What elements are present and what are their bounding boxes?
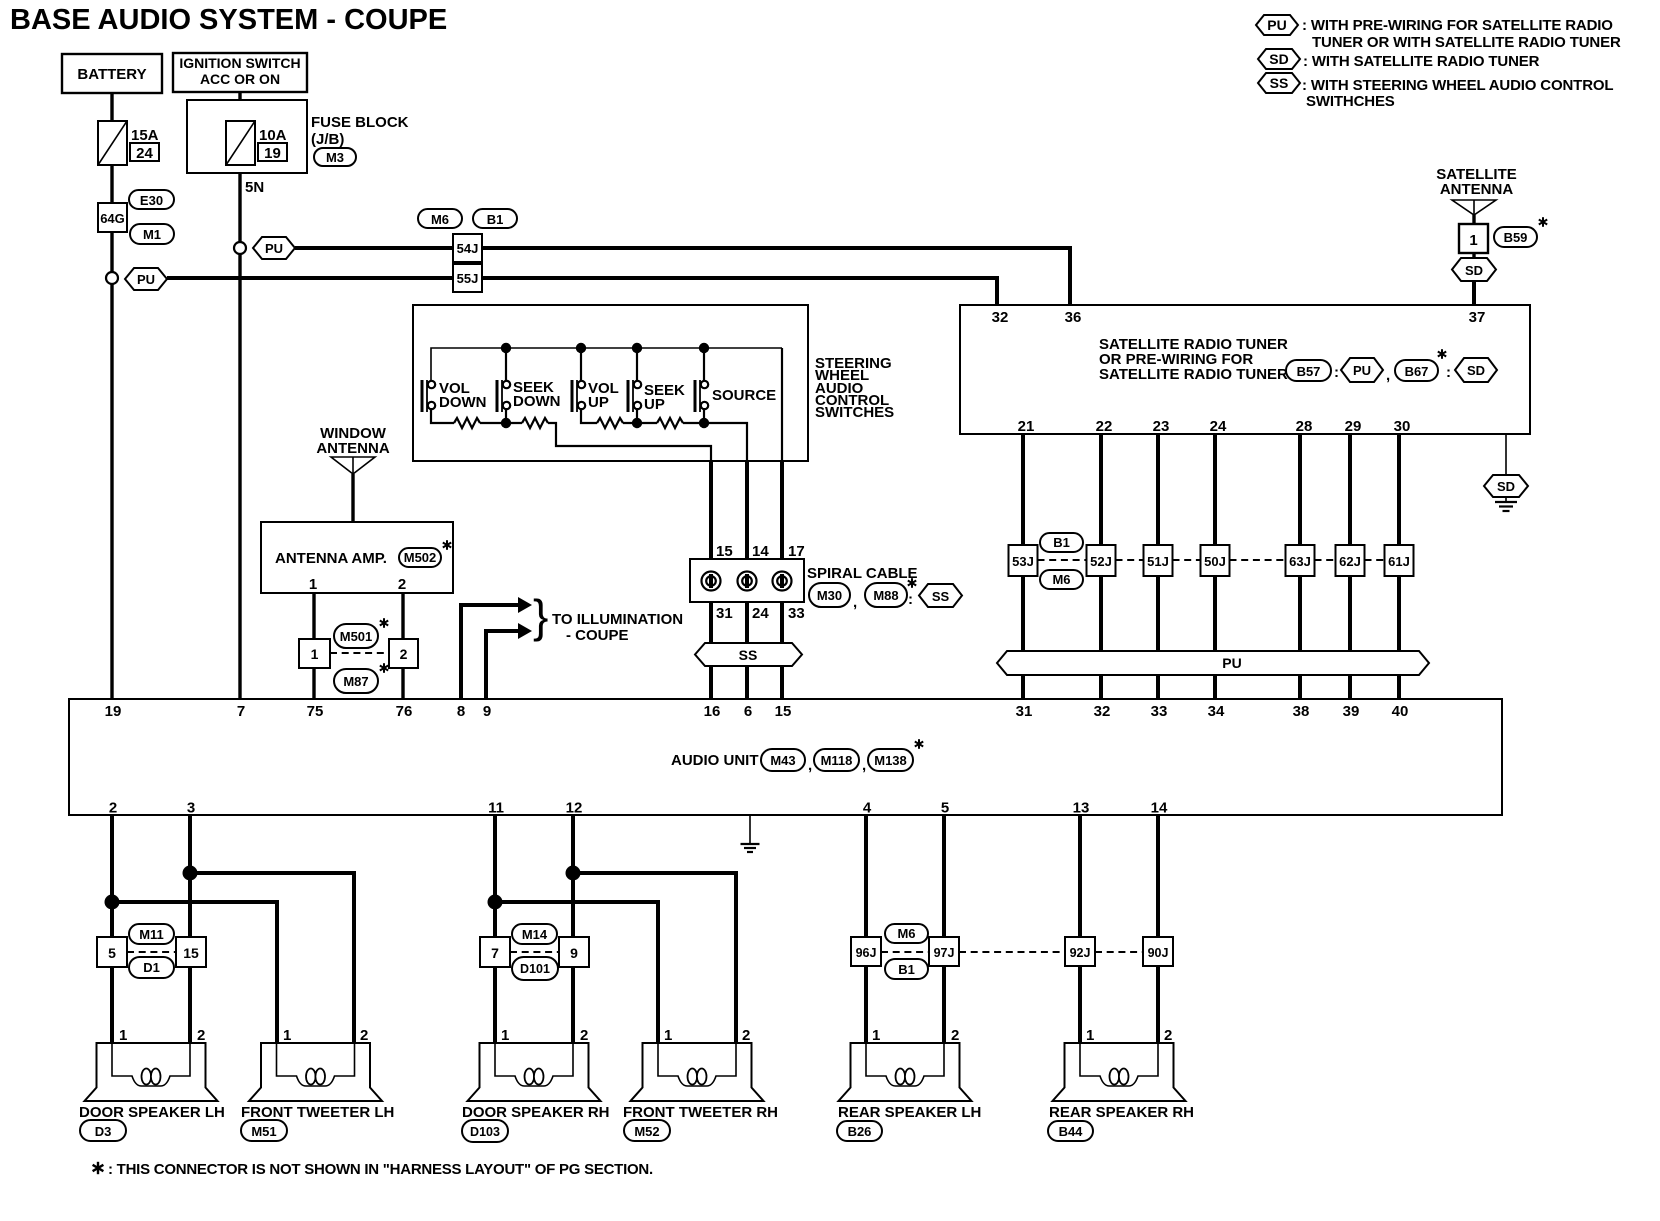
svg-text:97J: 97J — [934, 946, 955, 960]
wire audio 14 to rear RH 2 — [1156, 815, 1160, 1043]
ignition switch — [173, 53, 307, 92]
connector M11 — [129, 924, 174, 944]
svg-text:SATELLITE RADIO TUNER: SATELLITE RADIO TUNER — [1099, 366, 1288, 383]
junction audio12 — [566, 866, 581, 881]
svg-text:30: 30 — [1394, 418, 1411, 435]
wire branch to tweeter LH 1 — [112, 902, 277, 1043]
svg-text:SD: SD — [1465, 263, 1483, 278]
connector B67 — [1395, 360, 1438, 381]
svg-text:90J: 90J — [1148, 946, 1169, 960]
battery B+ — [62, 54, 162, 93]
net tag SD ground — [1484, 475, 1528, 497]
svg-text:1: 1 — [311, 646, 319, 662]
svg-text:D101: D101 — [520, 962, 550, 976]
connector B1 rear — [885, 959, 928, 979]
svg-text:7: 7 — [237, 703, 245, 720]
wire seek-up bottom — [636, 408, 638, 423]
wire audio 2 to door speaker LH 1 — [110, 815, 114, 1043]
svg-text:39: 39 — [1343, 703, 1360, 720]
net banner PU — [997, 651, 1429, 675]
wire box1 to SD — [1472, 253, 1475, 260]
door speaker LH — [85, 1043, 218, 1101]
connector M51 — [241, 1120, 287, 1141]
junction bus vol-up — [576, 343, 586, 353]
wire audio 13 to rear RH 1 — [1078, 815, 1082, 1043]
front tweeter LH — [249, 1043, 382, 1101]
wire SD to tuner pin37 — [1472, 281, 1476, 305]
svg-text:14: 14 — [1151, 800, 1168, 817]
svg-text:ACC OR ON: ACC OR ON — [200, 71, 280, 87]
svg-text:FRONT TWEETER LH: FRONT TWEETER LH — [241, 1104, 394, 1121]
junction battery/PU — [106, 272, 118, 284]
fuse 15A — [98, 121, 127, 165]
svg-text:2: 2 — [580, 1027, 588, 1044]
svg-text:DOWN: DOWN — [439, 394, 487, 411]
splice 62J — [1336, 545, 1365, 576]
connector box 5 — [97, 937, 127, 967]
svg-text:24: 24 — [1210, 418, 1227, 435]
door speaker RH — [468, 1043, 601, 1101]
asterisk B59 — [1539, 217, 1547, 227]
splice 53J — [1009, 545, 1038, 576]
connector M502 — [399, 548, 441, 567]
net tag SS right — [919, 584, 962, 607]
svg-text:B59: B59 — [1504, 230, 1528, 245]
connector box 1 antenna — [1459, 224, 1488, 253]
svg-text:75: 75 — [307, 703, 324, 720]
wire audio 4 to rear LH 1 — [864, 815, 868, 1043]
svg-text:1: 1 — [119, 1027, 127, 1044]
wire tuner 23 to audio 33 — [1156, 434, 1160, 699]
wire R3 to seek-up — [623, 422, 657, 424]
junction bus seek-down — [501, 343, 511, 353]
connector box 9 — [559, 937, 589, 967]
wire amp pin1 to audio 75 — [312, 593, 315, 699]
svg-text:7: 7 — [491, 945, 499, 961]
resistor R2 — [522, 418, 548, 428]
svg-text:M52: M52 — [634, 1124, 659, 1139]
svg-text:M118: M118 — [821, 753, 853, 768]
audio unit box — [69, 699, 1502, 815]
wire tuner 28 to audio 38 — [1298, 434, 1302, 699]
svg-text:M6: M6 — [1052, 572, 1070, 587]
svg-text:PU: PU — [1267, 17, 1286, 33]
arrowhead 9 — [518, 623, 532, 639]
svg-text:52J: 52J — [1090, 554, 1112, 569]
svg-text:,: , — [1386, 367, 1390, 384]
satellite antenna symbol — [1452, 200, 1496, 215]
svg-text:22: 22 — [1096, 418, 1113, 435]
svg-text:15: 15 — [775, 703, 792, 720]
svg-text:19: 19 — [264, 145, 281, 162]
svg-text:1: 1 — [1086, 1027, 1094, 1044]
wire seek-down bottom — [505, 408, 507, 423]
wire spiral pin 17 column — [780, 461, 784, 699]
svg-text:61J: 61J — [1388, 554, 1410, 569]
wire audio 11 to door speaker RH 1 — [493, 815, 497, 1043]
spiral coil pin17 — [773, 572, 792, 591]
splice 52J — [1087, 545, 1116, 576]
satellite radio tuner box — [960, 305, 1530, 434]
svg-text:38: 38 — [1293, 703, 1310, 720]
svg-text:16: 16 — [704, 703, 721, 720]
net banner SS — [695, 643, 802, 666]
net tag SD antenna — [1452, 258, 1496, 281]
wire switch top bus — [431, 348, 782, 381]
wire battery feed — [110, 93, 113, 699]
wire branch to tweeter LH 2 — [190, 873, 354, 1043]
svg-text:19: 19 — [105, 703, 122, 720]
svg-text:E30: E30 — [140, 193, 163, 208]
svg-text:3: 3 — [187, 800, 195, 817]
svg-text:10A: 10A — [259, 127, 287, 144]
svg-text:31: 31 — [716, 605, 733, 622]
svg-text:M501: M501 — [340, 629, 373, 644]
svg-text:SD: SD — [1497, 479, 1515, 494]
svg-text:UP: UP — [644, 396, 665, 413]
net tag PU upper — [253, 237, 295, 259]
svg-text:5: 5 — [941, 800, 949, 817]
wire tuner 29 to audio 39 — [1348, 434, 1352, 699]
svg-text:SWITCHES: SWITCHES — [815, 404, 894, 421]
svg-text:63J: 63J — [1289, 554, 1311, 569]
connector B44 — [1048, 1121, 1093, 1141]
wire to illumination 9 — [486, 631, 518, 699]
connector M118 — [814, 749, 859, 771]
splice 55J — [453, 264, 482, 292]
net tag SD tuner — [1455, 358, 1497, 382]
svg-text:21: 21 — [1018, 418, 1035, 435]
legend PU symbol — [1256, 15, 1298, 35]
svg-text:32: 32 — [992, 309, 1009, 326]
wire tuner 22 to audio 32 — [1099, 434, 1103, 699]
svg-text:AUDIO UNIT: AUDIO UNIT — [671, 752, 759, 769]
svg-text:2: 2 — [109, 800, 117, 817]
steering wheel audio control switches box — [413, 305, 808, 461]
front tweeter RH — [631, 1043, 764, 1101]
svg-text:34: 34 — [1208, 703, 1225, 720]
svg-text:M11: M11 — [139, 927, 164, 942]
wire drop seek-down — [505, 348, 507, 381]
svg-text:1: 1 — [283, 1027, 291, 1044]
connector 64G — [98, 203, 127, 232]
svg-text:28: 28 — [1296, 418, 1313, 435]
connector B59 — [1494, 227, 1537, 247]
wire source bottom — [703, 408, 705, 423]
svg-text:64G: 64G — [100, 211, 125, 226]
rear speaker RH — [1053, 1043, 1186, 1101]
wire tuner 24 to audio 34 — [1213, 434, 1217, 699]
splice 97J — [929, 937, 959, 966]
svg-text:- COUPE: - COUPE — [566, 627, 629, 644]
asterisk M501 — [380, 618, 388, 628]
wire tuner 21 to audio 31 — [1021, 434, 1025, 699]
dashed 92J-90J — [1095, 951, 1143, 953]
switch SEEK DOWN — [497, 379, 561, 412]
resistor R1 — [454, 418, 480, 428]
svg-text:1: 1 — [501, 1027, 509, 1044]
rear speaker LH — [839, 1043, 972, 1101]
svg-text:2: 2 — [742, 1027, 750, 1044]
svg-text:SOURCE: SOURCE — [712, 387, 776, 404]
switch SEEK UP — [628, 380, 685, 413]
svg-text:M30: M30 — [817, 588, 842, 603]
net tag PU lower — [125, 268, 167, 290]
svg-text:FUSE BLOCK: FUSE BLOCK — [311, 114, 409, 131]
connector E30 — [129, 190, 174, 209]
svg-text:53J: 53J — [1012, 554, 1034, 569]
arrowhead 8 — [518, 597, 532, 613]
svg-text::: : — [908, 591, 913, 608]
antenna amp box — [261, 522, 453, 593]
connector M501 — [334, 624, 378, 648]
fuse number 19 — [258, 143, 287, 161]
connector M87 — [334, 669, 378, 693]
svg-text:17: 17 — [788, 543, 805, 560]
svg-text:40: 40 — [1392, 703, 1409, 720]
ground symbol SD — [1495, 497, 1517, 511]
dashed 51J-50J — [1173, 559, 1201, 561]
svg-text:D1: D1 — [143, 960, 160, 975]
connector B57 — [1286, 360, 1331, 381]
svg-text:9: 9 — [483, 703, 491, 720]
junction audio11 — [488, 895, 503, 910]
svg-text:15A: 15A — [131, 127, 159, 144]
svg-text:92J: 92J — [1070, 946, 1091, 960]
svg-text:2: 2 — [1164, 1027, 1172, 1044]
wire R1 to seek-down — [480, 422, 522, 424]
svg-text:5N: 5N — [245, 179, 264, 196]
svg-text:62J: 62J — [1339, 554, 1361, 569]
svg-text:: WITH PRE-WIRING FOR SATELLIT: : WITH PRE-WIRING FOR SATELLITE RADIO — [1302, 17, 1613, 34]
svg-text:DOOR SPEAKER RH: DOOR SPEAKER RH — [462, 1104, 610, 1121]
connector box 15 — [176, 937, 206, 967]
dashed link 1-2 — [330, 652, 389, 654]
svg-text:SPIRAL CABLE: SPIRAL CABLE — [807, 565, 918, 582]
connector M30 — [809, 583, 850, 607]
connector box 7 — [480, 937, 510, 967]
svg-text:M87: M87 — [343, 674, 368, 689]
switch SOURCE — [695, 380, 776, 412]
wire branch to tweeter RH 2 — [573, 873, 736, 1043]
connector D1 — [129, 957, 174, 978]
fuse block J/B — [187, 100, 307, 173]
svg-text:PU: PU — [137, 272, 155, 287]
dashed 52J-51J — [1116, 559, 1144, 561]
svg-text:2: 2 — [951, 1027, 959, 1044]
svg-text:D3: D3 — [95, 1124, 112, 1139]
fuse number 24 — [130, 143, 159, 161]
svg-text:M138: M138 — [874, 753, 907, 768]
wire drop seek-up — [636, 348, 638, 381]
wire PU bus upper — [295, 248, 1070, 305]
dashed 5-15 — [127, 951, 176, 953]
svg-text:SD: SD — [1467, 363, 1485, 378]
asterisk M502 — [443, 540, 451, 550]
switch VOL DOWN — [422, 380, 487, 412]
svg-text:SS: SS — [932, 589, 950, 604]
svg-text:(J/B): (J/B) — [311, 131, 344, 148]
junction audio3 — [183, 866, 198, 881]
svg-text:SD: SD — [1269, 51, 1288, 67]
svg-text:M51: M51 — [251, 1124, 276, 1139]
svg-text:: WITH SATELLITE RADIO TUNER: : WITH SATELLITE RADIO TUNER — [1303, 53, 1540, 70]
splice 92J — [1065, 937, 1095, 966]
svg-text:37: 37 — [1469, 309, 1486, 326]
connector B1 — [473, 209, 517, 228]
connector M88 — [865, 583, 907, 607]
svg-text:24: 24 — [752, 605, 769, 622]
svg-text:: WITH STEERING WHEEL AUDIO CO: : WITH STEERING WHEEL AUDIO CONTROL — [1302, 77, 1613, 94]
svg-text:SS: SS — [1270, 75, 1289, 91]
dashed 7-9 — [510, 951, 559, 953]
splice 63J — [1286, 545, 1315, 576]
resistor R4 — [657, 418, 683, 428]
svg-text:BASE AUDIO SYSTEM - COUPE: BASE AUDIO SYSTEM - COUPE — [10, 4, 447, 36]
svg-text:PU: PU — [1353, 363, 1371, 378]
connector M3 — [314, 148, 356, 166]
wire spiral pin 14 column — [745, 461, 749, 699]
wire ignition feed — [238, 92, 241, 699]
splice 90J — [1143, 937, 1173, 966]
spiral coil pin14 — [738, 572, 757, 591]
svg-text:24: 24 — [136, 145, 153, 162]
svg-text:2: 2 — [197, 1027, 205, 1044]
resistor R3 — [597, 418, 623, 428]
svg-text:51J: 51J — [1147, 554, 1169, 569]
svg-text:11: 11 — [488, 800, 504, 817]
svg-text:2: 2 — [398, 576, 406, 593]
svg-text:M3: M3 — [326, 150, 344, 165]
spiral coil pin15 — [702, 572, 721, 591]
svg-text:DOOR SPEAKER LH: DOOR SPEAKER LH — [79, 1104, 225, 1121]
dashed 63J-62J — [1315, 559, 1336, 561]
connector box 2 — [389, 639, 418, 668]
svg-text:15: 15 — [716, 543, 733, 560]
svg-text:B1: B1 — [1053, 535, 1070, 550]
splice 96J — [851, 937, 881, 966]
svg-text:96J: 96J — [856, 946, 877, 960]
svg-text:M6: M6 — [897, 926, 915, 941]
wire branch to tweeter RH 1 — [495, 902, 658, 1043]
svg-text:,: , — [862, 757, 866, 774]
svg-text:REAR SPEAKER LH: REAR SPEAKER LH — [838, 1104, 981, 1121]
wire audio 5 to rear LH 2 — [942, 815, 946, 1043]
wire tuner case to ground — [1505, 434, 1507, 475]
splice 54J — [453, 234, 482, 262]
connector M43 — [761, 749, 805, 771]
junction ignition/PU — [234, 242, 246, 254]
svg-text:FRONT TWEETER RH: FRONT TWEETER RH — [623, 1104, 778, 1121]
splice 50J — [1201, 545, 1230, 576]
svg-text:SS: SS — [739, 647, 758, 663]
svg-text:B1: B1 — [487, 212, 504, 227]
fuse 10A — [226, 121, 255, 165]
svg-text:DOWN: DOWN — [513, 393, 561, 410]
wire drop source — [703, 348, 705, 381]
wire drop vol-up — [580, 348, 582, 381]
connector box 1 — [299, 639, 330, 668]
svg-text:,: , — [808, 757, 812, 774]
svg-text:8: 8 — [457, 703, 465, 720]
svg-text:2: 2 — [400, 646, 408, 662]
connector B1 splice row — [1040, 533, 1083, 552]
junction seek-down bottom — [501, 418, 511, 428]
svg-text:BATTERY: BATTERY — [77, 66, 146, 83]
net tag PU tuner — [1341, 358, 1383, 382]
svg-text:1: 1 — [664, 1027, 672, 1044]
svg-text:1: 1 — [872, 1027, 880, 1044]
svg-text:6: 6 — [744, 703, 752, 720]
svg-text:14: 14 — [752, 543, 769, 560]
connector M6 rear — [885, 924, 928, 943]
junction seek-up bottom — [632, 418, 642, 428]
svg-text:5: 5 — [108, 945, 116, 961]
dashed 97J-92J — [959, 951, 1065, 953]
svg-text:PU: PU — [1222, 655, 1241, 671]
svg-text:UP: UP — [588, 394, 609, 411]
svg-text:IGNITION SWITCH: IGNITION SWITCH — [179, 55, 300, 71]
svg-text:M43: M43 — [770, 753, 795, 768]
wire tuner 30 to audio 40 — [1397, 434, 1401, 699]
wire antenna stub — [1472, 215, 1475, 226]
connector M1 — [130, 224, 174, 244]
svg-text:TO ILLUMINATION: TO ILLUMINATION — [552, 611, 683, 628]
svg-text:M502: M502 — [404, 550, 437, 565]
svg-text::: : — [1334, 364, 1339, 381]
svg-text:TUNER OR WITH SATELLITE RADIO: TUNER OR WITH SATELLITE RADIO TUNER — [1312, 34, 1621, 51]
spiral cable M30/M88 — [690, 559, 804, 602]
wire to illumination 8 — [461, 605, 518, 699]
wire PU bus lower — [167, 278, 997, 305]
wire vol-down bottom — [431, 408, 454, 423]
dashed 96J-97J — [881, 951, 929, 953]
svg-text:2: 2 — [360, 1027, 368, 1044]
wire R2 tap to output — [548, 423, 711, 461]
dashed 50J-63J — [1230, 559, 1286, 561]
connector M14 — [512, 924, 557, 944]
svg-text:36: 36 — [1065, 309, 1082, 326]
svg-text:ANTENNA AMP.: ANTENNA AMP. — [275, 550, 387, 567]
svg-text:1: 1 — [309, 576, 317, 593]
asterisk B67 — [1438, 349, 1446, 359]
splice 51J — [1144, 545, 1173, 576]
svg-text:50J: 50J — [1204, 554, 1226, 569]
svg-text::: : — [1446, 364, 1451, 381]
switch VOL UP — [572, 380, 619, 412]
svg-text:33: 33 — [1151, 703, 1168, 720]
wire vol-up bottom — [581, 408, 597, 423]
svg-text:ANTENNA: ANTENNA — [316, 440, 389, 457]
splice 61J — [1385, 545, 1414, 576]
svg-text:}: } — [533, 590, 548, 642]
svg-text:M6: M6 — [431, 212, 449, 227]
svg-text:29: 29 — [1345, 418, 1362, 435]
wire antenna to amp — [351, 474, 354, 522]
connector B26 — [837, 1121, 882, 1141]
junction audio2 — [105, 895, 120, 910]
wire audio 3 to door speaker LH 2 — [188, 815, 192, 1043]
connector D101 — [512, 957, 558, 980]
dashed 53J-52J — [1038, 559, 1087, 561]
svg-text:54J: 54J — [457, 241, 479, 256]
svg-text:13: 13 — [1073, 800, 1090, 817]
svg-text:B26: B26 — [848, 1124, 872, 1139]
footnote asterisk — [93, 1162, 104, 1174]
wire audio 12 to door speaker RH 2 — [571, 815, 575, 1043]
svg-text:B57: B57 — [1297, 364, 1321, 379]
svg-text:4: 4 — [863, 800, 872, 817]
